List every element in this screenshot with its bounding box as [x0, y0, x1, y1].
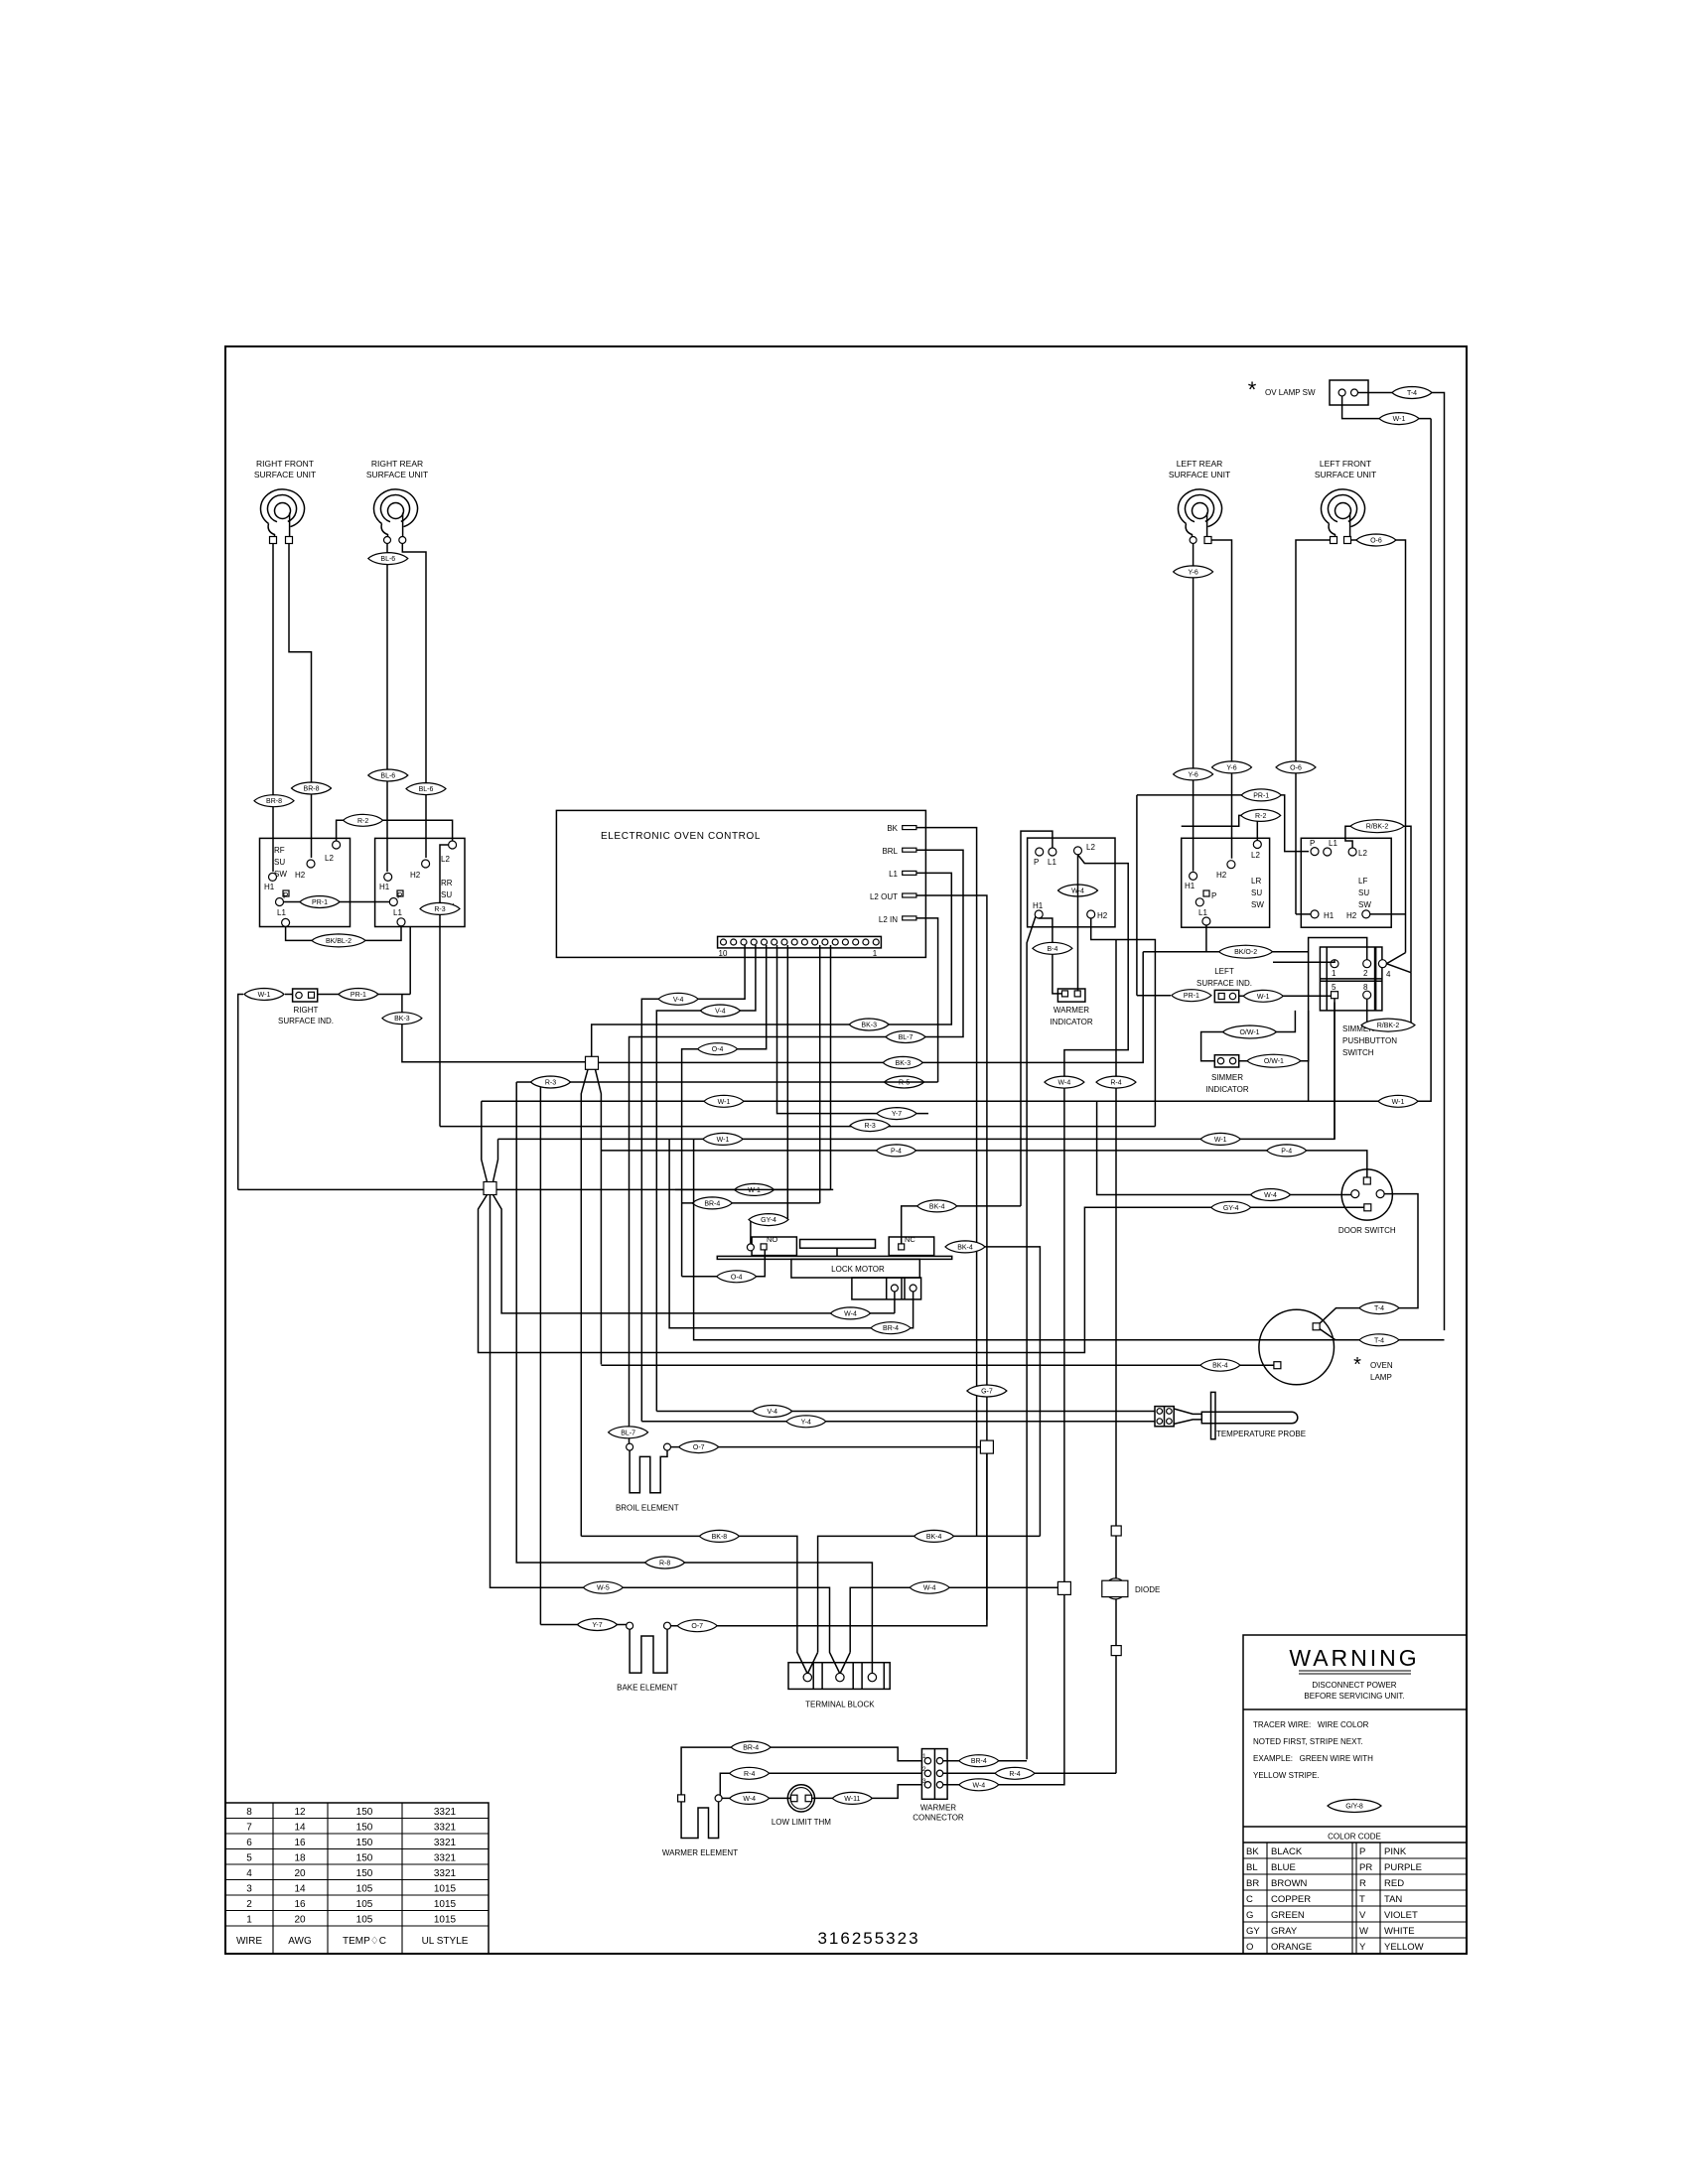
warmer element zigzag: [681, 1802, 719, 1839]
lock motor left switch box: [752, 1237, 796, 1256]
wire warmer sw top bracket from lock BK-4 riser: [1021, 831, 1053, 1206]
capsule BR-4: [731, 1741, 771, 1753]
wire RR right lead right then down to H2: [402, 544, 426, 859]
wire pin1 feed: [1273, 960, 1335, 963]
svg-text:H2: H2: [295, 871, 306, 880]
wire BK-4: oven lamp left terminal to left bus: [601, 1364, 1274, 1366]
wire funnel leg right: down then right to lock motor W-4 bus: [493, 1195, 895, 1313]
terminal H2: [1227, 861, 1235, 869]
svg-text:COPPER: COPPER: [1271, 1894, 1311, 1905]
svg-text:GY-4: GY-4: [1223, 1205, 1239, 1212]
warmer indicator box: [1057, 989, 1085, 1002]
svg-text:RIGHT FRONT: RIGHT FRONT: [256, 459, 314, 469]
wire T-4 bus from x=698.6 riser: [694, 1139, 1336, 1339]
svg-text:L1: L1: [277, 908, 286, 917]
wire pin2 bracket: up, left, down to W-1 bus: [1309, 938, 1367, 1102]
wire V-4 bus to probe: [656, 1411, 1155, 1413]
svg-text:W-4: W-4: [844, 1310, 857, 1317]
wire L2 IN pin: right, down to R-5 bus: [916, 918, 938, 1082]
svg-text:R: R: [1359, 1878, 1366, 1889]
diode connector square lower: [1111, 1646, 1121, 1656]
svg-text:O-4: O-4: [731, 1274, 743, 1281]
svg-text:PR-1: PR-1: [312, 899, 328, 906]
svg-text:RIGHT REAR: RIGHT REAR: [371, 459, 423, 469]
capsule R-2: [344, 814, 383, 826]
svg-text:NOTED FIRST, STRIPE NEXT.: NOTED FIRST, STRIPE NEXT.: [1253, 1737, 1363, 1746]
wire BR-4 right: connector 1 to H1 riser: [943, 1760, 1027, 1762]
svg-text:Y-7: Y-7: [592, 1622, 602, 1629]
svg-text:W-1: W-1: [1392, 1099, 1405, 1106]
diode connector square upper: [1111, 1526, 1121, 1536]
wire T-4 lower: oven lamp terminal right to T-4 drop: [1317, 1326, 1445, 1340]
capsule PR-1: [1241, 789, 1281, 801]
svg-text:BR-4: BR-4: [883, 1325, 899, 1332]
svg-text:PR: PR: [1359, 1862, 1372, 1873]
capsule BL-6: [368, 553, 408, 565]
svg-text:H1: H1: [1033, 901, 1044, 910]
capsule P-4: [877, 1145, 916, 1157]
wire pin4 diagonals: [1386, 953, 1405, 964]
svg-text:8: 8: [246, 1807, 252, 1818]
lock motor body: [791, 1259, 919, 1278]
svg-text:SW: SW: [1251, 900, 1264, 909]
wire pin8 down to R/BK-2: [1367, 973, 1411, 1025]
svg-text:H2: H2: [1097, 911, 1108, 920]
svg-text:R-4: R-4: [744, 1771, 755, 1778]
svg-text:105: 105: [356, 1884, 373, 1895]
capsule R-3: [420, 902, 460, 914]
wire LF H2 right to O-6 right drop: [1370, 913, 1406, 915]
svg-text:3: 3: [922, 1778, 926, 1785]
wire Y-7 bus to bake left terminal: [540, 1624, 626, 1626]
svg-text:18: 18: [294, 1853, 306, 1864]
svg-text:L2 IN: L2 IN: [879, 915, 898, 924]
svg-text:H1: H1: [264, 883, 275, 891]
wire BK/O-2: LR L1 down, right: [1206, 925, 1309, 952]
svg-text:H1: H1: [1324, 911, 1335, 920]
capsule BK-4: [1200, 1359, 1240, 1371]
wire pin7 GY-4: down to lock motor GY-4 bus: [786, 945, 788, 1220]
RR SU SW switch box: [375, 838, 465, 926]
broil element zigzag: [630, 1450, 667, 1493]
capsule G/Y-8: [1328, 1800, 1381, 1813]
svg-text:O/W-1: O/W-1: [1264, 1058, 1284, 1065]
capsule O-6: [1356, 534, 1396, 546]
capsule PR-1: [1172, 990, 1211, 1002]
capsule T-4: [1392, 387, 1432, 399]
svg-text:H1: H1: [1185, 882, 1196, 890]
terminal H1: [1035, 910, 1043, 918]
terminal 5: [1332, 992, 1338, 999]
svg-text:W-4: W-4: [743, 1796, 756, 1803]
svg-text:ORANGE: ORANGE: [1271, 1942, 1312, 1953]
svg-text:3321: 3321: [434, 1823, 457, 1834]
svg-text:3321: 3321: [434, 1868, 457, 1879]
terminal H2: [1362, 910, 1370, 918]
terminal L2: [1074, 847, 1082, 855]
svg-text:TEMPERATURE PROBE: TEMPERATURE PROBE: [1216, 1430, 1306, 1438]
svg-text:W-1: W-1: [718, 1099, 731, 1106]
svg-text:316255323: 316255323: [817, 1929, 919, 1948]
capsule R/BK-2: [1361, 1019, 1415, 1031]
svg-text:WARMER: WARMER: [1054, 1006, 1089, 1015]
svg-text:3321: 3321: [434, 1838, 457, 1848]
capsule Y-4: [786, 1416, 826, 1428]
svg-text:SU: SU: [1358, 888, 1369, 897]
svg-text:BR-8: BR-8: [304, 786, 320, 793]
capsule BK-4: [917, 1200, 957, 1212]
svg-text:12: 12: [294, 1807, 306, 1818]
svg-text:W-11: W-11: [844, 1796, 860, 1803]
wire Y-4 bus to probe: [641, 1421, 1155, 1423]
svg-text:W: W: [1359, 1926, 1368, 1937]
right rear surface unit coil: [373, 489, 417, 540]
svg-text:O: O: [1246, 1942, 1253, 1953]
terminal P: [1196, 898, 1203, 906]
RF SU SW switch box: [260, 838, 351, 926]
svg-text:LEFT REAR: LEFT REAR: [1177, 459, 1223, 469]
capsule W-1: [244, 989, 284, 1001]
wire W-4 bus to door switch left circle: [1097, 1101, 1351, 1194]
wire funnel left riser: [482, 1101, 488, 1181]
svg-text:SW: SW: [1358, 900, 1371, 909]
wire P-4 bus: [601, 1151, 1366, 1177]
svg-text:BEFORE SERVICING UNIT.: BEFORE SERVICING UNIT.: [1304, 1692, 1404, 1701]
door switch circle: [1341, 1169, 1392, 1220]
capsule R/BK-2: [1350, 820, 1404, 833]
svg-text:BK-4: BK-4: [929, 1203, 945, 1210]
svg-text:P-4: P-4: [1281, 1148, 1292, 1155]
capsule R-8: [645, 1557, 685, 1569]
svg-text:PR-1: PR-1: [1253, 792, 1269, 799]
capsule W-4: [959, 1779, 999, 1791]
wire W-4 lock bus riser to motor circle 1: [894, 1292, 896, 1313]
capsule GY-4: [749, 1214, 788, 1226]
svg-text:R-2: R-2: [1255, 813, 1266, 820]
capsule Y-7: [578, 1619, 618, 1631]
capsule BK-8: [699, 1530, 739, 1542]
svg-text:Y-6: Y-6: [1188, 569, 1197, 576]
capsule W-1: [704, 1095, 744, 1107]
svg-text:BK-4: BK-4: [957, 1244, 973, 1251]
svg-text:SURFACE IND.: SURFACE IND.: [1196, 979, 1252, 988]
wire W-1: bus to pin12 riser: [675, 1188, 831, 1190]
svg-text:2: 2: [246, 1899, 252, 1910]
svg-text:RED: RED: [1384, 1878, 1404, 1889]
capsule O-7: [677, 1620, 717, 1632]
svg-text:W-4: W-4: [1264, 1192, 1277, 1199]
svg-text:PR-1: PR-1: [351, 992, 366, 999]
svg-text:BR-4: BR-4: [704, 1200, 720, 1207]
lock motor lower block: [852, 1278, 921, 1299]
junction square on L2OUT line: [980, 1440, 993, 1453]
svg-text:1015: 1015: [434, 1884, 457, 1895]
svg-text:INDICATOR: INDICATOR: [1205, 1085, 1248, 1094]
wire W-1 to simmer 5: [1239, 995, 1332, 997]
svg-text:20: 20: [294, 1868, 306, 1879]
svg-text:6: 6: [246, 1838, 252, 1848]
svg-text:1: 1: [1332, 969, 1336, 978]
svg-text:BLACK: BLACK: [1271, 1846, 1303, 1857]
svg-text:DOOR SWITCH: DOOR SWITCH: [1338, 1226, 1396, 1235]
svg-text:L2 OUT: L2 OUT: [870, 892, 898, 901]
capsule O-7: [679, 1441, 719, 1453]
svg-text:L1: L1: [1048, 858, 1056, 867]
diode symbol: [1105, 1578, 1126, 1599]
wire indicator to PR-1 to RR-L1 drop: [285, 994, 293, 996]
wire R-4 right: connector 2 to R-4 vertical: [943, 1772, 1116, 1774]
svg-text:T: T: [1359, 1894, 1365, 1905]
svg-text:SU: SU: [441, 890, 452, 899]
terminal L2: [449, 841, 457, 849]
svg-text:LF: LF: [1358, 877, 1367, 886]
svg-text:LAMP: LAMP: [1370, 1373, 1392, 1382]
wire W-4 right: connector 3 to W-4 vertical: [943, 1594, 1064, 1784]
svg-text:BL-6: BL-6: [419, 786, 434, 793]
wire door right circle to T-4 upper to oven lamp: [1317, 1194, 1418, 1327]
svg-text:R-3: R-3: [864, 1123, 875, 1130]
svg-text:G: G: [1246, 1910, 1253, 1921]
wire R-4 vertical: [1115, 940, 1117, 1774]
svg-text:W-1: W-1: [717, 1137, 730, 1144]
svg-text:BK/O-2: BK/O-2: [1234, 949, 1257, 956]
svg-text:WIRE: WIRE: [236, 1936, 262, 1947]
wire BK-4: right part of bus down into terminal 1: [807, 1652, 817, 1674]
EOC box: [556, 810, 925, 957]
wire pin5 O-4: down, left, down to lock motor O-4 bus: [682, 945, 767, 1277]
capsule O-6: [1276, 761, 1316, 773]
low limit thm: [787, 1785, 814, 1812]
wire LF H1 left to O-6 drop: [1296, 913, 1311, 915]
svg-text:SURFACE UNIT: SURFACE UNIT: [366, 470, 428, 479]
wire L1 pin: right, down, left to square junction riser: [592, 873, 952, 1056]
capsule BR-8: [292, 782, 332, 794]
wire RR left lead down to H1: [386, 544, 388, 873]
wire L2 OUT pin: right, down to broil junction square: [916, 895, 987, 1620]
svg-text:SURFACE IND.: SURFACE IND.: [278, 1017, 334, 1025]
wire funnel leg mid: down to W-5 bus: [491, 1195, 589, 1588]
terminal 1: [1331, 960, 1338, 968]
svg-text:Y-4: Y-4: [801, 1419, 811, 1426]
wire BK/BL-2: RF L1 down, right, up to RR L1: [286, 926, 401, 941]
bake element terminals: [627, 1622, 633, 1629]
wire H1 diagonal to left bracket down: [1027, 917, 1036, 1760]
svg-text:W-4: W-4: [1058, 1080, 1071, 1087]
capsule W-1: [1200, 1133, 1240, 1145]
svg-text:AWG: AWG: [288, 1936, 312, 1947]
svg-text:DISCONNECT POWER: DISCONNECT POWER: [1312, 1681, 1396, 1690]
capsule W-1: [735, 1183, 774, 1195]
broil element terminals: [627, 1443, 633, 1450]
capsule R-3: [850, 1120, 890, 1132]
svg-text:DIODE: DIODE: [1135, 1585, 1160, 1594]
svg-text:BL-6: BL-6: [380, 773, 395, 780]
capsule R-2: [1241, 809, 1281, 821]
svg-text:W-4: W-4: [972, 1782, 985, 1789]
terminal P: [1311, 848, 1319, 856]
terminal H2: [1087, 910, 1095, 918]
svg-text:SURFACE UNIT: SURFACE UNIT: [1315, 470, 1376, 479]
wire L2 down through W-4 capsule to warmer indicator: [1077, 855, 1079, 992]
capsule Y-6: [1174, 768, 1213, 780]
wire R-4: from warmer terminal up to R-4 bus right to connector 2: [720, 1773, 921, 1795]
svg-text:PINK: PINK: [1384, 1846, 1407, 1857]
capsule R-4 on R-4 vertical: [1096, 1076, 1136, 1088]
wire pin11 BR-4: down to lock motor BR-4 bus: [819, 945, 821, 1203]
svg-text:GY: GY: [1246, 1926, 1260, 1937]
svg-text:TRACER WIRE: WIRE COLOR: TRACER WIRE: WIRE COLOR: [1253, 1720, 1369, 1729]
wire H2 right then down through R-4 to warmer connector: [1091, 918, 1156, 1127]
wire O/W-1 upper: from drop down-left to indicator: [1201, 1011, 1296, 1061]
capsule BR-4: [959, 1755, 999, 1767]
simmer indicator box: [1214, 1055, 1238, 1067]
svg-text:L2: L2: [1251, 851, 1260, 860]
svg-text:P: P: [397, 891, 402, 900]
svg-text:WHITE: WHITE: [1384, 1926, 1415, 1937]
capsule GY-4 (door): [1211, 1201, 1251, 1213]
svg-text:G-7: G-7: [981, 1389, 993, 1396]
svg-text:1015: 1015: [434, 1899, 457, 1910]
svg-text:GY-4: GY-4: [761, 1217, 776, 1224]
svg-text:Y: Y: [1359, 1942, 1366, 1953]
wire BR-4 bus: [682, 1202, 820, 1204]
wire BRL pin: right, down, left to BL-7 drop: [630, 850, 964, 1442]
capsule W-4: [1251, 1189, 1291, 1201]
svg-text:INDICATOR: INDICATOR: [1050, 1018, 1092, 1026]
svg-text:1: 1: [922, 1753, 926, 1760]
RF terminals: [270, 537, 277, 544]
capsule Y-6: [1174, 566, 1213, 578]
svg-text:105: 105: [356, 1899, 373, 1910]
capsule BR-8: [254, 795, 294, 807]
svg-text:L2: L2: [1358, 849, 1367, 858]
capsule W-4: [910, 1581, 949, 1593]
terminal 8: [1363, 991, 1371, 999]
svg-text:R-4: R-4: [1110, 1080, 1121, 1087]
capsule V-4: [700, 1005, 740, 1017]
svg-text:20: 20: [294, 1915, 306, 1926]
svg-text:CONNECTOR: CONNECTOR: [913, 1814, 964, 1823]
svg-text:BK/BL-2: BK/BL-2: [326, 938, 352, 945]
funnel junction square: [484, 1182, 496, 1195]
svg-text:BK-4: BK-4: [1212, 1363, 1228, 1370]
svg-text:WARMER ELEMENT: WARMER ELEMENT: [662, 1848, 738, 1857]
svg-text:COLOR CODE: COLOR CODE: [1328, 1833, 1381, 1842]
wire BK-4 upper: NC terminal up then right then up to warmer bracket: [902, 1206, 1021, 1244]
wire PR-1: RF P to RR P: [284, 901, 390, 903]
LR terminals: [1190, 537, 1196, 544]
wire LR right lead right then down to H2: [1211, 540, 1232, 859]
capsule R-3: [531, 1076, 571, 1088]
wire W-4: warmer terminal right to low limit: [722, 1797, 790, 1799]
wire BK-3 bus right of square1: [599, 952, 1144, 1063]
svg-text:BK: BK: [887, 824, 898, 833]
svg-text:3321: 3321: [434, 1853, 457, 1864]
svg-text:BK-8: BK-8: [712, 1534, 728, 1541]
svg-text:O/W-1: O/W-1: [1239, 1029, 1259, 1036]
left rear surface unit coil: [1178, 489, 1221, 540]
svg-text:3321: 3321: [434, 1807, 457, 1818]
svg-text:P: P: [1211, 891, 1216, 900]
svg-text:L2: L2: [1086, 843, 1095, 852]
svg-text:SURFACE UNIT: SURFACE UNIT: [254, 470, 316, 479]
warmer connector: [921, 1749, 947, 1800]
svg-text:P: P: [1034, 858, 1039, 867]
capsule P-4 (B-4): [1033, 942, 1072, 954]
wire W-11: low limit right to connector 3: [812, 1785, 922, 1799]
svg-text:BK-4: BK-4: [926, 1534, 942, 1541]
svg-text:2: 2: [922, 1766, 926, 1773]
svg-text:BR: BR: [1246, 1878, 1259, 1889]
capsule W-1: [703, 1133, 743, 1145]
svg-text:P: P: [283, 891, 288, 900]
svg-text:SURFACE UNIT: SURFACE UNIT: [1169, 470, 1230, 479]
wire square1 right diagonal down to P-4 junction and BK-4 oven bus: [596, 1069, 602, 1364]
svg-text:T-4: T-4: [1374, 1337, 1384, 1344]
capsule BL-6: [406, 783, 446, 795]
capsule W-4 (lock): [831, 1307, 871, 1319]
svg-text:2: 2: [1363, 969, 1368, 978]
svg-text:150: 150: [356, 1807, 373, 1818]
terminal L1: [1324, 848, 1332, 856]
wire pin12 W-1: down to W-1 main bus: [830, 945, 832, 1189]
terminal H1: [1190, 872, 1197, 880]
svg-text:Y-7: Y-7: [892, 1111, 902, 1118]
svg-text:LR: LR: [1251, 877, 1261, 886]
capsule BK-3: [883, 1056, 922, 1068]
capsule BR-4: [692, 1197, 732, 1209]
lock motor middle plate: [800, 1240, 876, 1249]
svg-text:R/BK-2: R/BK-2: [1366, 824, 1389, 831]
svg-text:BROIL ELEMENT: BROIL ELEMENT: [616, 1504, 679, 1513]
wire W-1 from switch bottom down right then down: [1342, 396, 1432, 419]
svg-text:BK-3: BK-3: [394, 1016, 410, 1023]
wire RR L1 drop to right surface ind bus: [409, 927, 411, 995]
svg-text:RIGHT: RIGHT: [294, 1006, 319, 1015]
svg-text:LOCK MOTOR: LOCK MOTOR: [831, 1265, 885, 1274]
wire funnel leg left: down then right to door-switch common bus: [479, 1195, 1368, 1353]
svg-text:R/BK-2: R/BK-2: [1377, 1023, 1400, 1029]
capsule W-4 on W-4 vertical: [1045, 1076, 1084, 1088]
svg-text:BL-7: BL-7: [621, 1430, 635, 1436]
capsule G-7: [967, 1385, 1007, 1397]
svg-text:R-2: R-2: [357, 818, 368, 825]
svg-text:7: 7: [246, 1823, 252, 1834]
wire W-1 left corner down (main white bus): [238, 995, 243, 1190]
junction square 1: [586, 1056, 599, 1069]
wire O-4 from left riser to NO square: [682, 1250, 766, 1277]
svg-text:V-4: V-4: [673, 997, 684, 1004]
svg-text:P-4: P-4: [891, 1148, 902, 1155]
svg-text:GREEN: GREEN: [1271, 1910, 1305, 1921]
svg-text:1015: 1015: [434, 1915, 457, 1926]
capsule W-4 (inside warmer sw): [1058, 885, 1098, 896]
RR terminals: [384, 537, 391, 544]
ov lamp switch box: [1330, 380, 1368, 405]
svg-text:R-3: R-3: [434, 906, 445, 913]
svg-text:R-8: R-8: [659, 1561, 670, 1568]
svg-text:UL STYLE: UL STYLE: [422, 1936, 469, 1947]
left surface indicator box: [1214, 990, 1238, 1002]
svg-text:O-7: O-7: [691, 1623, 703, 1630]
capsule W-5: [583, 1581, 623, 1593]
svg-text:NO: NO: [767, 1235, 777, 1244]
wire RF left lead down to H1: [272, 544, 274, 873]
wire BR-4: warmer element left terminal up right to connector 1: [681, 1747, 921, 1795]
svg-text:L2: L2: [441, 855, 450, 864]
wire PR-1 left stub: [1137, 995, 1171, 997]
svg-text:RR: RR: [441, 879, 453, 887]
